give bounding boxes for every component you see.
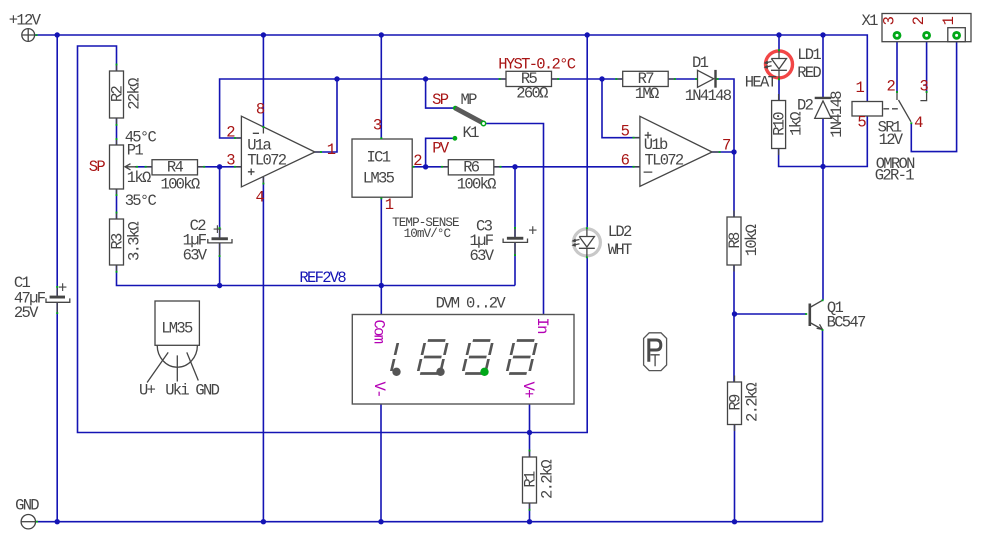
wire R6 right to junction: [494, 166, 515, 168]
wire R5 to R7: [552, 78, 623, 80]
svg-text:BC547: BC547: [827, 314, 866, 332]
wire pot bottom to R3: [116, 189, 118, 219]
svg-text:LD1: LD1: [797, 46, 821, 64]
svg-text:V+: V+: [519, 382, 537, 399]
node rail-left: [55, 32, 60, 37]
relay SR1 coil: [852, 79, 915, 185]
svg-text:+12V: +12V: [9, 12, 42, 30]
wire D1 to U1b output node: [716, 79, 734, 152]
wire SP tap: [426, 79, 453, 108]
node R5-R7-pin5: [599, 76, 604, 81]
svg-text:100kΩ: 100kΩ: [457, 175, 496, 193]
wire bottom GND rail: [36, 521, 823, 523]
svg-text:GND: GND: [15, 497, 39, 515]
node IC1pin1-REF2V8: [379, 283, 384, 288]
wire left rail lower: [56, 302, 58, 522]
op-amp U1a: [226, 100, 335, 206]
svg-text:TL072: TL072: [247, 151, 286, 169]
wire pin6 net: [515, 166, 640, 168]
svg-text:IC1: IC1: [367, 149, 391, 167]
wire X1 pin3 to contact: [896, 42, 898, 92]
digit 1: [391, 343, 397, 371]
svg-text:R3: R3: [109, 233, 127, 250]
svg-text:1kΩ: 1kΩ: [127, 169, 151, 187]
power +12V: [9, 12, 42, 42]
node U1b output: [731, 149, 736, 154]
node gnd-leftrail: [55, 519, 60, 524]
resistor R2: [109, 64, 144, 126]
svg-text:R4: R4: [167, 159, 184, 177]
wire output node down to R8: [733, 152, 735, 217]
wire U1a pin8 to rail: [262, 35, 264, 127]
svg-text:10mV/°C: 10mV/°C: [404, 227, 452, 241]
wire C2 bottom to REF2V8: [219, 243, 221, 286]
digit 8 (2nd): [418, 341, 448, 374]
wire D2 top: [822, 35, 824, 97]
svg-text:R6: R6: [463, 159, 480, 177]
svg-text:LD2: LD2: [608, 223, 632, 241]
logo PT: [644, 333, 667, 371]
wire left rail upper: [56, 35, 58, 296]
svg-text:MP: MP: [461, 91, 478, 109]
svg-text:R10: R10: [771, 112, 789, 136]
wire REF2V8 net: [117, 265, 516, 286]
wire junction down to C3: [514, 167, 516, 237]
node rail-V+: [585, 32, 590, 37]
wire D2 bottom to Q1 collector: [822, 119, 824, 301]
svg-text:25V: 25V: [14, 304, 39, 322]
node rail-IC1: [379, 32, 384, 37]
diode D1: [685, 54, 732, 105]
node gnd-R9: [732, 519, 737, 524]
node IC1pin2-R6-PV: [423, 164, 428, 169]
svg-text:HYST-0.2°C: HYST-0.2°C: [498, 55, 575, 73]
node SP tap: [423, 76, 428, 81]
ground GND: [15, 497, 39, 529]
wire pin5 of U1b: [602, 79, 640, 138]
resistor R6: [441, 159, 502, 194]
resistor R5 + label HYST: [498, 55, 575, 102]
wire pot wiper to R4: [135, 166, 152, 168]
LED LD1: [745, 46, 822, 91]
switch K1: [432, 91, 486, 157]
svg-text:12V: 12V: [879, 131, 904, 149]
node C2-REF2V8: [217, 283, 222, 288]
svg-text:D1: D1: [692, 54, 709, 72]
connector X1: [862, 12, 972, 42]
wire R2-top loop to V+ row: [78, 46, 588, 433]
svg-text:35°C: 35°C: [125, 192, 157, 210]
wire C3 bottom to REF2V8: [514, 242, 516, 285]
resistor R9: [727, 376, 762, 432]
svg-text:RED: RED: [797, 64, 821, 82]
svg-text:45°C: 45°C: [125, 128, 157, 146]
svg-text:TL072: TL072: [645, 151, 684, 169]
svg-text:REF2V8: REF2V8: [299, 269, 346, 287]
resistor R4: [145, 159, 206, 194]
node rail-LD1: [776, 32, 781, 37]
svg-text:1N4148: 1N4148: [828, 91, 846, 138]
wire R4 to U1a pin3: [198, 166, 242, 168]
wire R1 bottom to GND rail: [529, 503, 531, 522]
svg-text:2.2kΩ: 2.2kΩ: [539, 460, 557, 499]
svg-text:D2: D2: [797, 97, 814, 115]
wire IC1 pin2 to R6: [412, 166, 448, 168]
svg-text:R8: R8: [726, 232, 744, 249]
svg-text:1N4148: 1N4148: [685, 87, 732, 105]
node R10-D2-coil: [820, 164, 825, 169]
resistor R1: [522, 450, 557, 511]
svg-text:SP: SP: [89, 158, 106, 176]
svg-text:X1: X1: [862, 12, 879, 30]
svg-text:V-: V-: [370, 382, 388, 397]
svg-text:R2: R2: [109, 86, 127, 103]
svg-text:U+: U+: [139, 382, 156, 400]
wire LD1 branch: [778, 35, 780, 101]
wire contact common to X1 pin1: [911, 42, 956, 152]
resistor R8: [726, 211, 761, 272]
digit 8 (4th): [507, 341, 537, 374]
svg-text:PV: PV: [432, 139, 450, 157]
wire R2 bottom to pot: [116, 118, 118, 145]
node gnd-R1: [527, 519, 532, 524]
svg-text:3.3kΩ: 3.3kΩ: [126, 222, 144, 261]
wire X1 pin2 to contact NC: [926, 42, 928, 92]
digit 8 (3rd): [463, 341, 493, 374]
svg-text:10kΩ: 10kΩ: [743, 224, 761, 256]
wire R10 bottom to node: [779, 149, 823, 167]
capacitor C1: [14, 274, 70, 322]
op-amp U1b: [621, 116, 731, 186]
node pin3-C2: [217, 164, 222, 169]
transistor Q1: [805, 299, 866, 332]
wire U1a feedback / R5 net left: [220, 79, 506, 138]
svg-text:LM35: LM35: [161, 319, 193, 337]
node R8-R9-base: [732, 311, 737, 316]
wire R7 to D1: [669, 78, 698, 80]
wire R8 to R9 node: [733, 265, 735, 382]
svg-text:In: In: [533, 318, 551, 334]
wire U1b output stub: [712, 151, 734, 153]
sensor IC1: [352, 117, 459, 242]
diode D2: [797, 91, 846, 138]
wire R9 to GND rail: [734, 425, 736, 522]
wire U1a pin4 to GND rail: [262, 177, 264, 522]
svg-text:22kΩ: 22kΩ: [126, 78, 144, 110]
resistor R7: [615, 70, 676, 103]
wire PV stub: [426, 138, 453, 167]
node R6-C3-pin6: [512, 164, 517, 169]
LED LD2: [573, 223, 632, 259]
resistor R3: [109, 212, 144, 273]
wire relay coil pin5: [823, 116, 867, 167]
wire pin3 node down through C2: [219, 167, 221, 238]
display DVM: [352, 295, 574, 405]
svg-text:1kΩ: 1kΩ: [788, 112, 806, 136]
svg-text:SP: SP: [432, 91, 449, 109]
wire Q1 emitter to GND rail: [822, 330, 824, 522]
decimal dot 3 (green): [480, 368, 488, 376]
relay SR1 contact: [887, 78, 929, 133]
LM35 package drawing: [139, 301, 220, 400]
svg-text:DVM 0..2V: DVM 0..2V: [436, 295, 507, 313]
capacitor C2: [183, 217, 232, 264]
decimal dot 2: [436, 368, 444, 376]
svg-text:2.2kΩ: 2.2kΩ: [744, 383, 762, 422]
svg-text:GND: GND: [195, 382, 219, 400]
svg-text:WHT: WHT: [608, 241, 632, 259]
svg-text:K1: K1: [463, 124, 480, 142]
node rail-D2: [820, 32, 825, 37]
node rail-pin8: [261, 32, 266, 37]
node V+-R1: [527, 430, 532, 435]
svg-text:R9: R9: [727, 394, 745, 411]
svg-text:1MΩ: 1MΩ: [635, 85, 659, 103]
wire IC1 pin1 to REF2V8 and DVM Com: [380, 197, 382, 314]
svg-text:LM35: LM35: [363, 170, 395, 188]
node feedback-output: [334, 76, 339, 81]
wire DVM V+ through R1: [529, 404, 531, 457]
svg-text:260Ω: 260Ω: [516, 85, 548, 103]
wire IC1 pin3 to rail: [380, 35, 382, 139]
node gnd-pin4: [261, 519, 266, 524]
svg-text:HEAT: HEAT: [745, 73, 777, 91]
svg-text:Com: Com: [370, 320, 388, 344]
decimal dot 1: [392, 368, 400, 376]
svg-text:R1: R1: [522, 471, 540, 488]
svg-text:100kΩ: 100kΩ: [160, 175, 199, 193]
wire K1 to DVM In: [484, 124, 544, 315]
svg-text:Uki: Uki: [165, 382, 189, 400]
wire U1a output to feedback: [315, 79, 337, 152]
resistor R10: [771, 94, 806, 155]
wire Q1 base: [735, 313, 807, 315]
wire V+ branch upper (through LD2): [586, 35, 588, 228]
potentiometer P1: [89, 128, 157, 210]
node gnd-V-: [378, 519, 383, 524]
wire top +12V rail: [35, 35, 868, 102]
svg-text:63V: 63V: [470, 247, 495, 265]
capacitor C3: [470, 218, 538, 265]
wire DVM V- to GND rail: [380, 404, 382, 522]
svg-text:63V: 63V: [183, 246, 208, 264]
svg-text:G2R-1: G2R-1: [875, 167, 914, 185]
